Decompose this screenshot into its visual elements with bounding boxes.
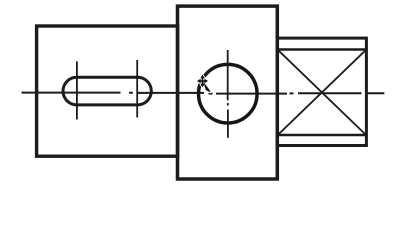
flat-surface diagonal (top-left to bottom-right) <box>279 51 365 134</box>
slot left arc vertical centerline <box>76 62 78 120</box>
middle block outline <box>178 6 278 179</box>
flat-surface diagonal (top-right to bottom-left) <box>279 51 365 134</box>
slot (obround hole) in left block <box>63 77 151 105</box>
circle vertical centerline (dash-dot) <box>227 50 229 138</box>
circle (hole) in middle block <box>199 64 258 123</box>
right block outline <box>277 38 366 145</box>
horizontal centerline (dash-dot axis) <box>22 93 385 94</box>
mouse cursor (move cross with drag arrow) <box>197 75 211 93</box>
right block inner bottom chamfer line <box>277 134 366 136</box>
mouse cursor white halo <box>197 75 211 93</box>
slot right arc vertical centerline <box>136 60 138 118</box>
left block outline <box>37 26 178 156</box>
right block inner top chamfer line <box>277 48 366 50</box>
